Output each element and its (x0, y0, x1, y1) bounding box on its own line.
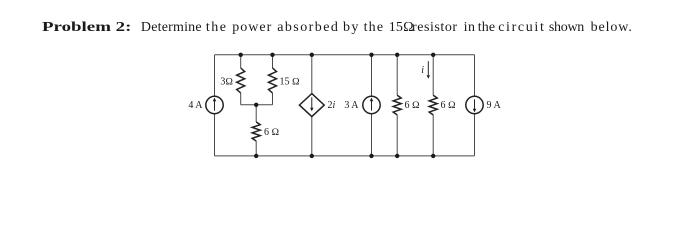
svg-text:9 A: 9 A (487, 100, 502, 111)
svg-text:4 A: 4 A (188, 100, 203, 111)
svg-text:3Ω: 3Ω (220, 76, 233, 87)
svg-text:i: i (421, 65, 424, 76)
svg-text:6 Ω: 6 Ω (441, 100, 457, 111)
svg-text:15 Ω: 15 Ω (280, 76, 301, 87)
svg-text:6 Ω: 6 Ω (405, 100, 421, 111)
svg-text:6 Ω: 6 Ω (264, 127, 280, 138)
svg-text:3 A: 3 A (344, 100, 359, 111)
svg-text:2i: 2i (328, 100, 336, 111)
